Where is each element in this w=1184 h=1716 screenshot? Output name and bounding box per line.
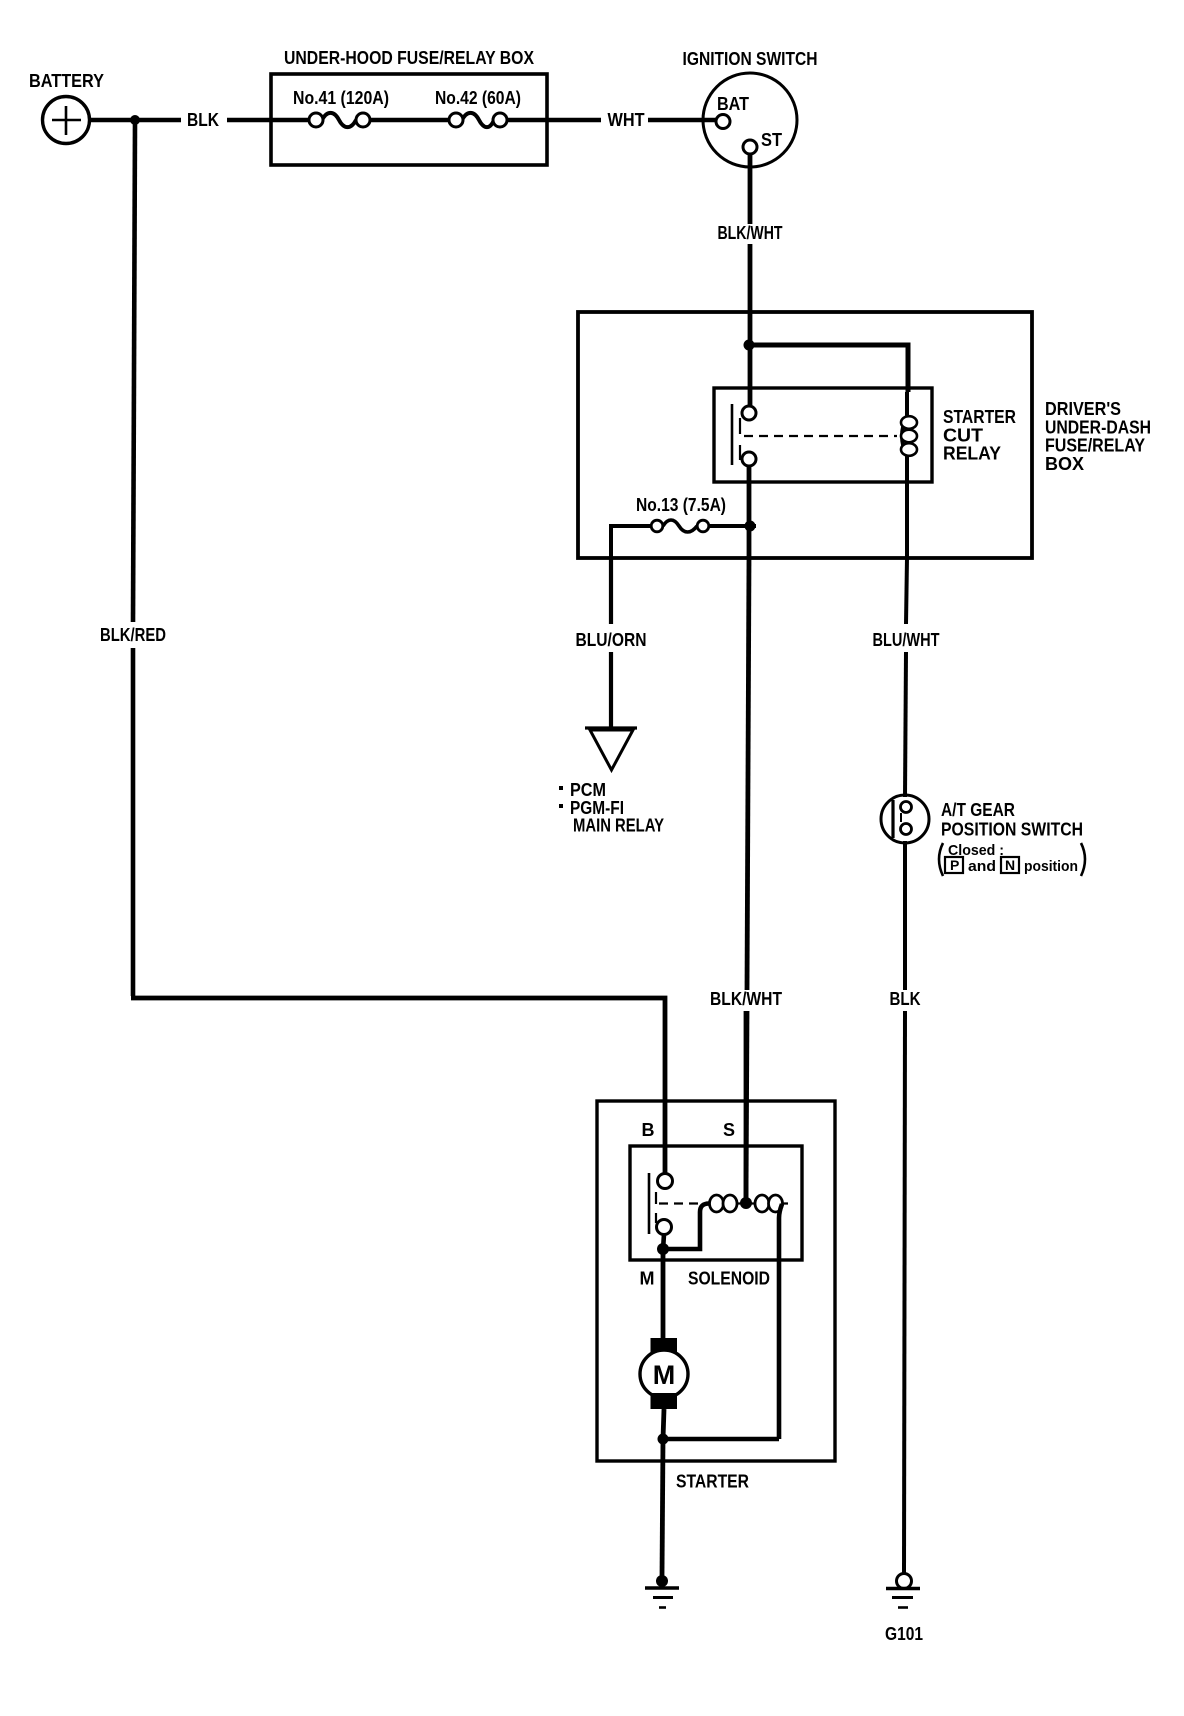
node: coil centre junction	[740, 1197, 752, 1209]
wire M terminal to junction	[663, 1234, 664, 1250]
svg-text:No.13 (7.5A): No.13 (7.5A)	[636, 495, 726, 515]
starter box	[597, 1101, 835, 1492]
svg-text:RELAY: RELAY	[943, 444, 1001, 464]
wire M down to motor	[661, 1249, 666, 1340]
solenoid actuation dashed line	[659, 1202, 789, 1204]
wire BLK/RED left down	[100, 122, 166, 996]
node: solenoid M junction	[657, 1243, 669, 1255]
wire bottom return	[663, 1437, 779, 1442]
svg-text:POSITION SWITCH: POSITION SWITCH	[941, 820, 1083, 840]
wire branch to relay coil	[749, 345, 908, 392]
svg-text:MAIN RELAY: MAIN RELAY	[573, 816, 664, 836]
wire BLK right down to ground	[890, 841, 921, 1574]
motor M1	[640, 1338, 688, 1409]
node: battery junction	[130, 115, 140, 125]
wire BLU/WHT right down	[873, 558, 940, 797]
svg-text:WHT: WHT	[608, 110, 645, 130]
wire to ground	[662, 1439, 663, 1576]
ground (starter)	[645, 1575, 679, 1608]
solenoid contact bar	[648, 1173, 651, 1234]
svg-text:BLU/ORN: BLU/ORN	[576, 630, 647, 650]
svg-text:BAT: BAT	[717, 94, 749, 114]
svg-text:BATTERY: BATTERY	[29, 71, 104, 91]
svg-text:BLK: BLK	[187, 110, 219, 130]
battery	[29, 71, 104, 144]
wire relay contact down to fuse junction	[747, 466, 752, 558]
solenoid contact arm marks	[655, 1192, 657, 1223]
solenoid M terminal	[657, 1220, 672, 1235]
svg-text:CUT: CUT	[943, 425, 983, 445]
PCM / PGM-FI MAIN RELAY labels	[559, 780, 664, 836]
wire ST down (BLK/WHT)	[718, 154, 783, 408]
svg-text:BLU/WHT: BLU/WHT	[873, 630, 940, 650]
wire coil left leg	[663, 1204, 709, 1250]
relay contact arm marks	[739, 418, 741, 460]
ground G101	[885, 1574, 923, 1645]
svg-text:BLK/WHT: BLK/WHT	[718, 223, 783, 243]
wire BLK/WHT middle down	[710, 558, 782, 1200]
relay lower contact terminal	[742, 452, 756, 466]
svg-text:PCM: PCM	[570, 780, 606, 800]
svg-text:UNDER-DASH: UNDER-DASH	[1045, 417, 1151, 437]
wire battery to fuse box (BLK)	[89, 110, 310, 130]
svg-text:M: M	[653, 1360, 676, 1390]
svg-text:IGNITION SWITCH: IGNITION SWITCH	[683, 49, 818, 69]
svg-text:A/T GEAR: A/T GEAR	[941, 800, 1015, 820]
relay contact bar	[731, 404, 734, 465]
wire S down to coil	[744, 1011, 749, 1200]
svg-text:G101: G101	[885, 1624, 923, 1644]
starter cut relay U1	[714, 388, 1016, 482]
svg-text:BLK: BLK	[890, 989, 921, 1009]
ignition switch	[683, 49, 818, 167]
solenoid B terminal	[658, 1174, 673, 1189]
svg-text:FUSE/RELAY: FUSE/RELAY	[1045, 436, 1145, 456]
wire fuse box to ignition switch (WHT)	[507, 110, 717, 130]
svg-text:UNDER-HOOD FUSE/RELAY BOX: UNDER-HOOD FUSE/RELAY BOX	[284, 48, 534, 68]
svg-text:position: position	[1024, 858, 1078, 875]
relay upper contact terminal	[742, 406, 756, 420]
svg-text:BLK/RED: BLK/RED	[100, 625, 166, 645]
relay coil	[901, 392, 917, 456]
node: fuse 13 junction	[745, 521, 756, 532]
svg-text:ST: ST	[761, 130, 782, 150]
svg-text:STARTER: STARTER	[943, 407, 1016, 427]
svg-text:STARTER: STARTER	[676, 1472, 749, 1492]
node: bottom junction	[658, 1434, 669, 1445]
svg-text:No.42 (60A): No.42 (60A)	[435, 88, 521, 108]
solenoid coil	[710, 1195, 783, 1212]
wire BLU/ORN	[576, 558, 647, 727]
arrow to PCM	[585, 728, 637, 770]
relay actuation dashed line	[744, 435, 897, 437]
svg-text:P: P	[950, 857, 959, 873]
svg-text:BOX: BOX	[1045, 454, 1084, 474]
svg-text:B: B	[642, 1120, 655, 1140]
wire coil right leg down	[779, 1204, 782, 1439]
svg-text:N: N	[1005, 857, 1015, 873]
fuse No.41 (120A)	[293, 88, 389, 127]
wire motor to bottom junction	[663, 1409, 664, 1439]
wire between fuses	[370, 118, 449, 123]
svg-text:BLK/WHT: BLK/WHT	[710, 989, 782, 1009]
solenoid box	[630, 1146, 802, 1289]
svg-text:S: S	[723, 1120, 735, 1140]
fuse No.42 (60A)	[435, 88, 521, 127]
svg-text:SOLENOID: SOLENOID	[688, 1269, 770, 1289]
svg-text:DRIVER'S: DRIVER'S	[1045, 399, 1121, 419]
A/T gear position switch	[881, 795, 1085, 876]
fuse No.13 (7.5A)	[611, 495, 756, 558]
driver's under-dash fuse/relay box	[578, 312, 1151, 558]
wire coil down through box bottom	[905, 456, 909, 558]
svg-text:No.41 (120A): No.41 (120A)	[293, 88, 389, 108]
svg-text:M: M	[640, 1269, 655, 1289]
svg-text:and: and	[968, 858, 996, 875]
wire bottom horizontal to starter B	[131, 998, 665, 1175]
under-hood fuse/relay box	[271, 48, 547, 165]
node: branch junction	[744, 340, 755, 351]
